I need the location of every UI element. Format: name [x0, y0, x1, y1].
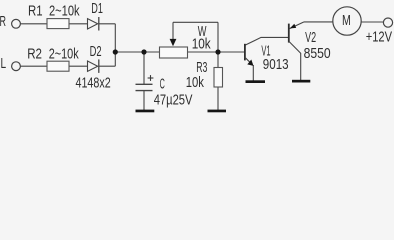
wire R2 to D2: [69, 65, 88, 67]
ground below V1 emitter: [246, 80, 266, 83]
ground below V2 collector: [292, 80, 310, 83]
node junction dot wiper/R3 tap: [215, 49, 220, 54]
svg-text:4148x2: 4148x2: [76, 75, 111, 92]
potentiometer W body: [160, 47, 188, 58]
potentiometer W wiper arrow: [170, 39, 177, 46]
svg-text:47µ25V: 47µ25V: [154, 92, 193, 109]
diode D1: [88, 17, 99, 31]
wire V1 collector to V2 base: [245, 37, 289, 45]
terminal +12V: [383, 18, 392, 27]
svg-text:D1: D1: [91, 0, 103, 17]
wire wiper top horizontal: [173, 21, 218, 23]
svg-text:D2: D2: [90, 43, 102, 60]
wire D2 to vertical: [99, 65, 116, 67]
wire wiper vertical above pot: [172, 22, 174, 40]
svg-text:+12V: +12V: [366, 29, 392, 46]
wire vertical joining D1 and D2 rows: [114, 24, 116, 66]
wire L terminal to R2: [20, 65, 47, 67]
capacitor C plates: [136, 84, 153, 90]
svg-text:10k: 10k: [186, 74, 205, 91]
resistor R2: [47, 61, 69, 71]
wire V2 emitter horizontal to motor: [304, 21, 333, 23]
node A junction dot D1/D2: [113, 49, 118, 54]
wire R1 to D1: [69, 23, 88, 25]
wire R3 top: [217, 52, 219, 68]
ground below R3: [208, 110, 227, 113]
svg-text:2~10k: 2~10k: [49, 46, 79, 63]
terminal L input: [12, 62, 21, 71]
wire wiper return vertical to bus: [217, 22, 219, 52]
wire R3 bottom to ground: [217, 87, 219, 110]
svg-text:R1: R1: [28, 2, 43, 19]
ground below capacitor C: [136, 110, 155, 113]
terminal R input: [12, 19, 21, 28]
wire motor to +12V terminal: [361, 21, 383, 23]
wire pot W right to V1 base: [188, 51, 245, 53]
svg-text:L: L: [1, 55, 7, 72]
svg-text:C: C: [160, 75, 165, 92]
svg-text:M: M: [342, 12, 351, 29]
wire V1 emitter to ground: [252, 65, 254, 81]
svg-text:V2: V2: [305, 29, 316, 46]
node junction dot capacitor tap: [141, 49, 146, 54]
transistor V1 emitter with arrow: [245, 57, 254, 66]
transistor V2 collector: [289, 41, 301, 53]
resistor R3 body: [214, 68, 223, 88]
svg-text:R2: R2: [27, 46, 42, 63]
wire bus node A to pot W left: [115, 51, 159, 53]
wire capacitor to ground: [143, 91, 145, 110]
svg-text:2~10k: 2~10k: [49, 2, 80, 19]
svg-text:8550: 8550: [304, 45, 331, 62]
wire D1 to vertical: [99, 23, 116, 25]
svg-text:R: R: [0, 13, 6, 30]
resistor R1: [47, 19, 69, 29]
diode D2: [88, 59, 99, 73]
wire V2 collector to ground: [300, 53, 302, 80]
svg-text:10k: 10k: [192, 36, 211, 53]
wire R terminal to R1: [20, 23, 47, 25]
capacitor C polarity plus: [148, 75, 154, 81]
transistor V2 emitter with arrow (PNP): [290, 22, 305, 29]
wire capacitor branch down: [143, 52, 145, 84]
transistor V2 base bar: [288, 24, 290, 43]
transistor V1 base bar: [244, 44, 246, 61]
svg-text:9013: 9013: [263, 56, 289, 73]
motor M: [333, 7, 361, 35]
